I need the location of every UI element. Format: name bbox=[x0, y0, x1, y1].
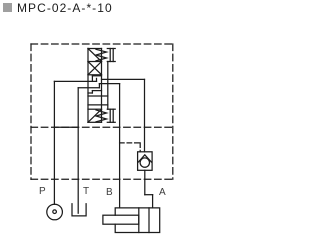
cylinder C1 piston line 2 bbox=[148, 208, 150, 233]
pump P1 inner dot bbox=[53, 210, 57, 214]
solenoid a diagonal bbox=[88, 49, 102, 62]
crossed position X diagonal 1 bbox=[88, 62, 102, 75]
wire B vertical bbox=[119, 84, 121, 208]
wire A horizontal bbox=[102, 78, 145, 80]
cylinder C1 rod bbox=[103, 215, 139, 224]
modular stack dashed enclosure: upper module (solenoid valve) bbox=[31, 44, 173, 179]
center position stub s1 bbox=[92, 75, 101, 77]
dashed left border bbox=[30, 44, 32, 179]
center position P stub tick bbox=[96, 78, 98, 81]
dashed middle border (module separation) bbox=[31, 126, 173, 128]
gray square bullet bbox=[3, 3, 12, 12]
wire A to cylinder bbox=[152, 195, 154, 208]
dashed top border bbox=[31, 43, 173, 45]
wire P vertical bbox=[53, 81, 55, 204]
valve box edge (solenoid/X) bbox=[88, 61, 102, 63]
title MPC-02-A-*-10 bbox=[17, 1, 113, 15]
check valve seat bbox=[138, 155, 151, 162]
solenoid a spring bbox=[96, 49, 107, 61]
solenoid b diagonal bbox=[88, 109, 102, 122]
dashed bottom border bbox=[31, 178, 173, 180]
valve box edge (parallel/solenoid) bbox=[88, 108, 102, 110]
wire B horizontal bbox=[99, 83, 119, 85]
dashed right border bbox=[172, 44, 174, 179]
wire T horizontal bbox=[78, 87, 99, 89]
solid segment of middle border between P and T lines bbox=[54, 126, 78, 128]
tank T1 bbox=[72, 204, 86, 216]
center position stepped line left bbox=[88, 92, 92, 94]
solenoid b spring bbox=[96, 110, 107, 122]
port label A bbox=[159, 187, 166, 198]
check valve ball bbox=[140, 158, 149, 167]
crossed position X diagonal 2 bbox=[88, 62, 102, 75]
valve box edge top bbox=[88, 48, 102, 50]
wire A vertical upper bbox=[144, 79, 146, 151]
center position B stub tick bbox=[98, 84, 100, 88]
center position stepped riser bbox=[91, 91, 93, 93]
wire A vertical lower bbox=[144, 170, 146, 194]
wire A jog bbox=[145, 194, 153, 196]
pilot line dashed to check valve bbox=[120, 143, 141, 152]
directional valve U1: left wall bbox=[87, 49, 89, 123]
center position stepped line right bbox=[92, 90, 101, 92]
cylinder C1 body top bbox=[115, 208, 160, 233]
port label P bbox=[39, 186, 46, 197]
valve internal flow line bbox=[88, 104, 108, 106]
port label T bbox=[83, 186, 89, 197]
directional valve U1: right wall bbox=[101, 49, 103, 123]
check valve V1 body bbox=[138, 152, 153, 171]
valve box edge (X/center) bbox=[88, 74, 102, 76]
valve box edge (center/parallel) bbox=[88, 95, 108, 97]
solenoid a end cap II bbox=[107, 49, 115, 62]
port label B bbox=[106, 187, 113, 198]
pump P1 circle bbox=[47, 204, 63, 220]
valve box edge bottom bbox=[88, 121, 102, 123]
wire T vertical bbox=[77, 88, 79, 213]
cylinder C1 piston line 1 bbox=[138, 208, 140, 233]
valve right rail from solenoid caps bbox=[107, 62, 109, 110]
center position riser s2 bbox=[91, 76, 93, 82]
solenoid b end cap II bbox=[107, 109, 115, 122]
wire P horizontal bbox=[54, 80, 96, 82]
